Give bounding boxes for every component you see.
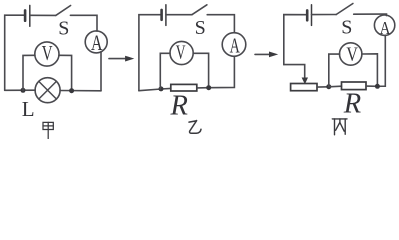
svg-text:A: A xyxy=(230,34,241,58)
wire (battery to switch) xyxy=(30,14,56,16)
wire (voltmeter branch left) xyxy=(160,53,170,89)
resistor R2 (rectangle) xyxy=(171,84,197,91)
battery B2 negative plate (short thick) xyxy=(160,10,163,20)
node (junction dot left) xyxy=(326,84,331,89)
ammeter A3 xyxy=(374,15,394,38)
wire (bottom right of lamp to ammeter corner) xyxy=(60,90,101,92)
label 丙 xyxy=(332,119,347,135)
node (junction dot right) xyxy=(206,85,211,90)
wire (battery to switch) xyxy=(312,14,337,16)
wire (switch to ammeter, with corner) xyxy=(354,14,387,16)
svg-text:R: R xyxy=(343,89,361,120)
arrow (乙 to 丙) xyxy=(255,52,278,58)
wire (voltmeter branch left) xyxy=(23,55,35,90)
arrow (甲 to 乙) xyxy=(109,56,134,62)
wire (switch to ammeter, with corner) xyxy=(70,15,97,31)
battery B3 positive plate (long thin) xyxy=(311,5,313,26)
resistor R3 (rectangle) xyxy=(342,82,367,90)
wire (voltmeter branch right) xyxy=(59,55,72,90)
battery B3 negative plate (short thick) xyxy=(306,10,309,20)
node (junction dot right, lamp wire) xyxy=(69,88,74,93)
switch S1 blade xyxy=(56,6,71,16)
wire (battery to switch) xyxy=(166,14,192,16)
wire (voltmeter branch right) xyxy=(193,53,208,87)
wire (voltmeter branch right) xyxy=(362,54,377,87)
rheostat wiper arrowhead xyxy=(302,78,308,85)
wire (resistor right to ammeter corner) xyxy=(366,85,377,87)
wire (ammeter bottom vertical) xyxy=(100,52,102,91)
node (junction dot left, lamp wire) xyxy=(21,88,26,93)
ammeter A1 xyxy=(85,30,107,55)
voltmeter V2 xyxy=(170,41,193,64)
voltmeter V3 xyxy=(340,43,362,66)
svg-text:S: S xyxy=(341,17,352,39)
wire (left vertical + top-left segment) xyxy=(284,15,307,65)
wire (resistor right to dot) xyxy=(197,87,209,89)
switch S3 blade xyxy=(336,4,353,15)
wire (voltmeter branch left) xyxy=(329,54,340,87)
wire (left vertical + top-left segment) xyxy=(5,15,25,90)
svg-text:S: S xyxy=(195,17,206,39)
ammeter A2 xyxy=(222,33,246,58)
voltmeter V1 xyxy=(35,41,59,66)
wire (ammeter bottom vertical + corner to right dot) xyxy=(377,35,385,86)
label 乙 xyxy=(189,120,201,133)
wire (bottom left of lamp) xyxy=(5,89,36,91)
svg-text:L: L xyxy=(22,97,35,121)
svg-text:R: R xyxy=(170,90,188,121)
wire (left branch to rheostat wiper) xyxy=(284,65,305,78)
svg-text:V: V xyxy=(346,44,358,66)
wire (rheostat right to left dot) xyxy=(317,86,329,88)
switch S2 blade xyxy=(192,5,207,15)
svg-text:V: V xyxy=(176,42,186,64)
wire (left vertical + top-left segment) xyxy=(139,15,162,91)
battery B2 positive plate (long thin) xyxy=(165,5,167,26)
node (junction dot left) xyxy=(159,86,164,91)
label 甲 xyxy=(43,122,53,138)
svg-text:S: S xyxy=(58,17,69,39)
wire (dot to resistor) xyxy=(329,85,342,88)
battery B1 positive plate (long thin) xyxy=(29,5,31,26)
battery B1 negative plate (short thick) xyxy=(24,10,27,20)
lamp L1 xyxy=(35,78,60,103)
node (junction dot right) xyxy=(375,84,380,89)
svg-text:V: V xyxy=(42,41,53,65)
wire (bottom left segment to resistor) xyxy=(139,88,171,90)
wire (switch to ammeter, with corner) xyxy=(207,15,234,33)
wire (ammeter bottom vertical + corner to right dot) xyxy=(209,56,235,87)
rheostat RP (rectangle) xyxy=(291,84,317,91)
